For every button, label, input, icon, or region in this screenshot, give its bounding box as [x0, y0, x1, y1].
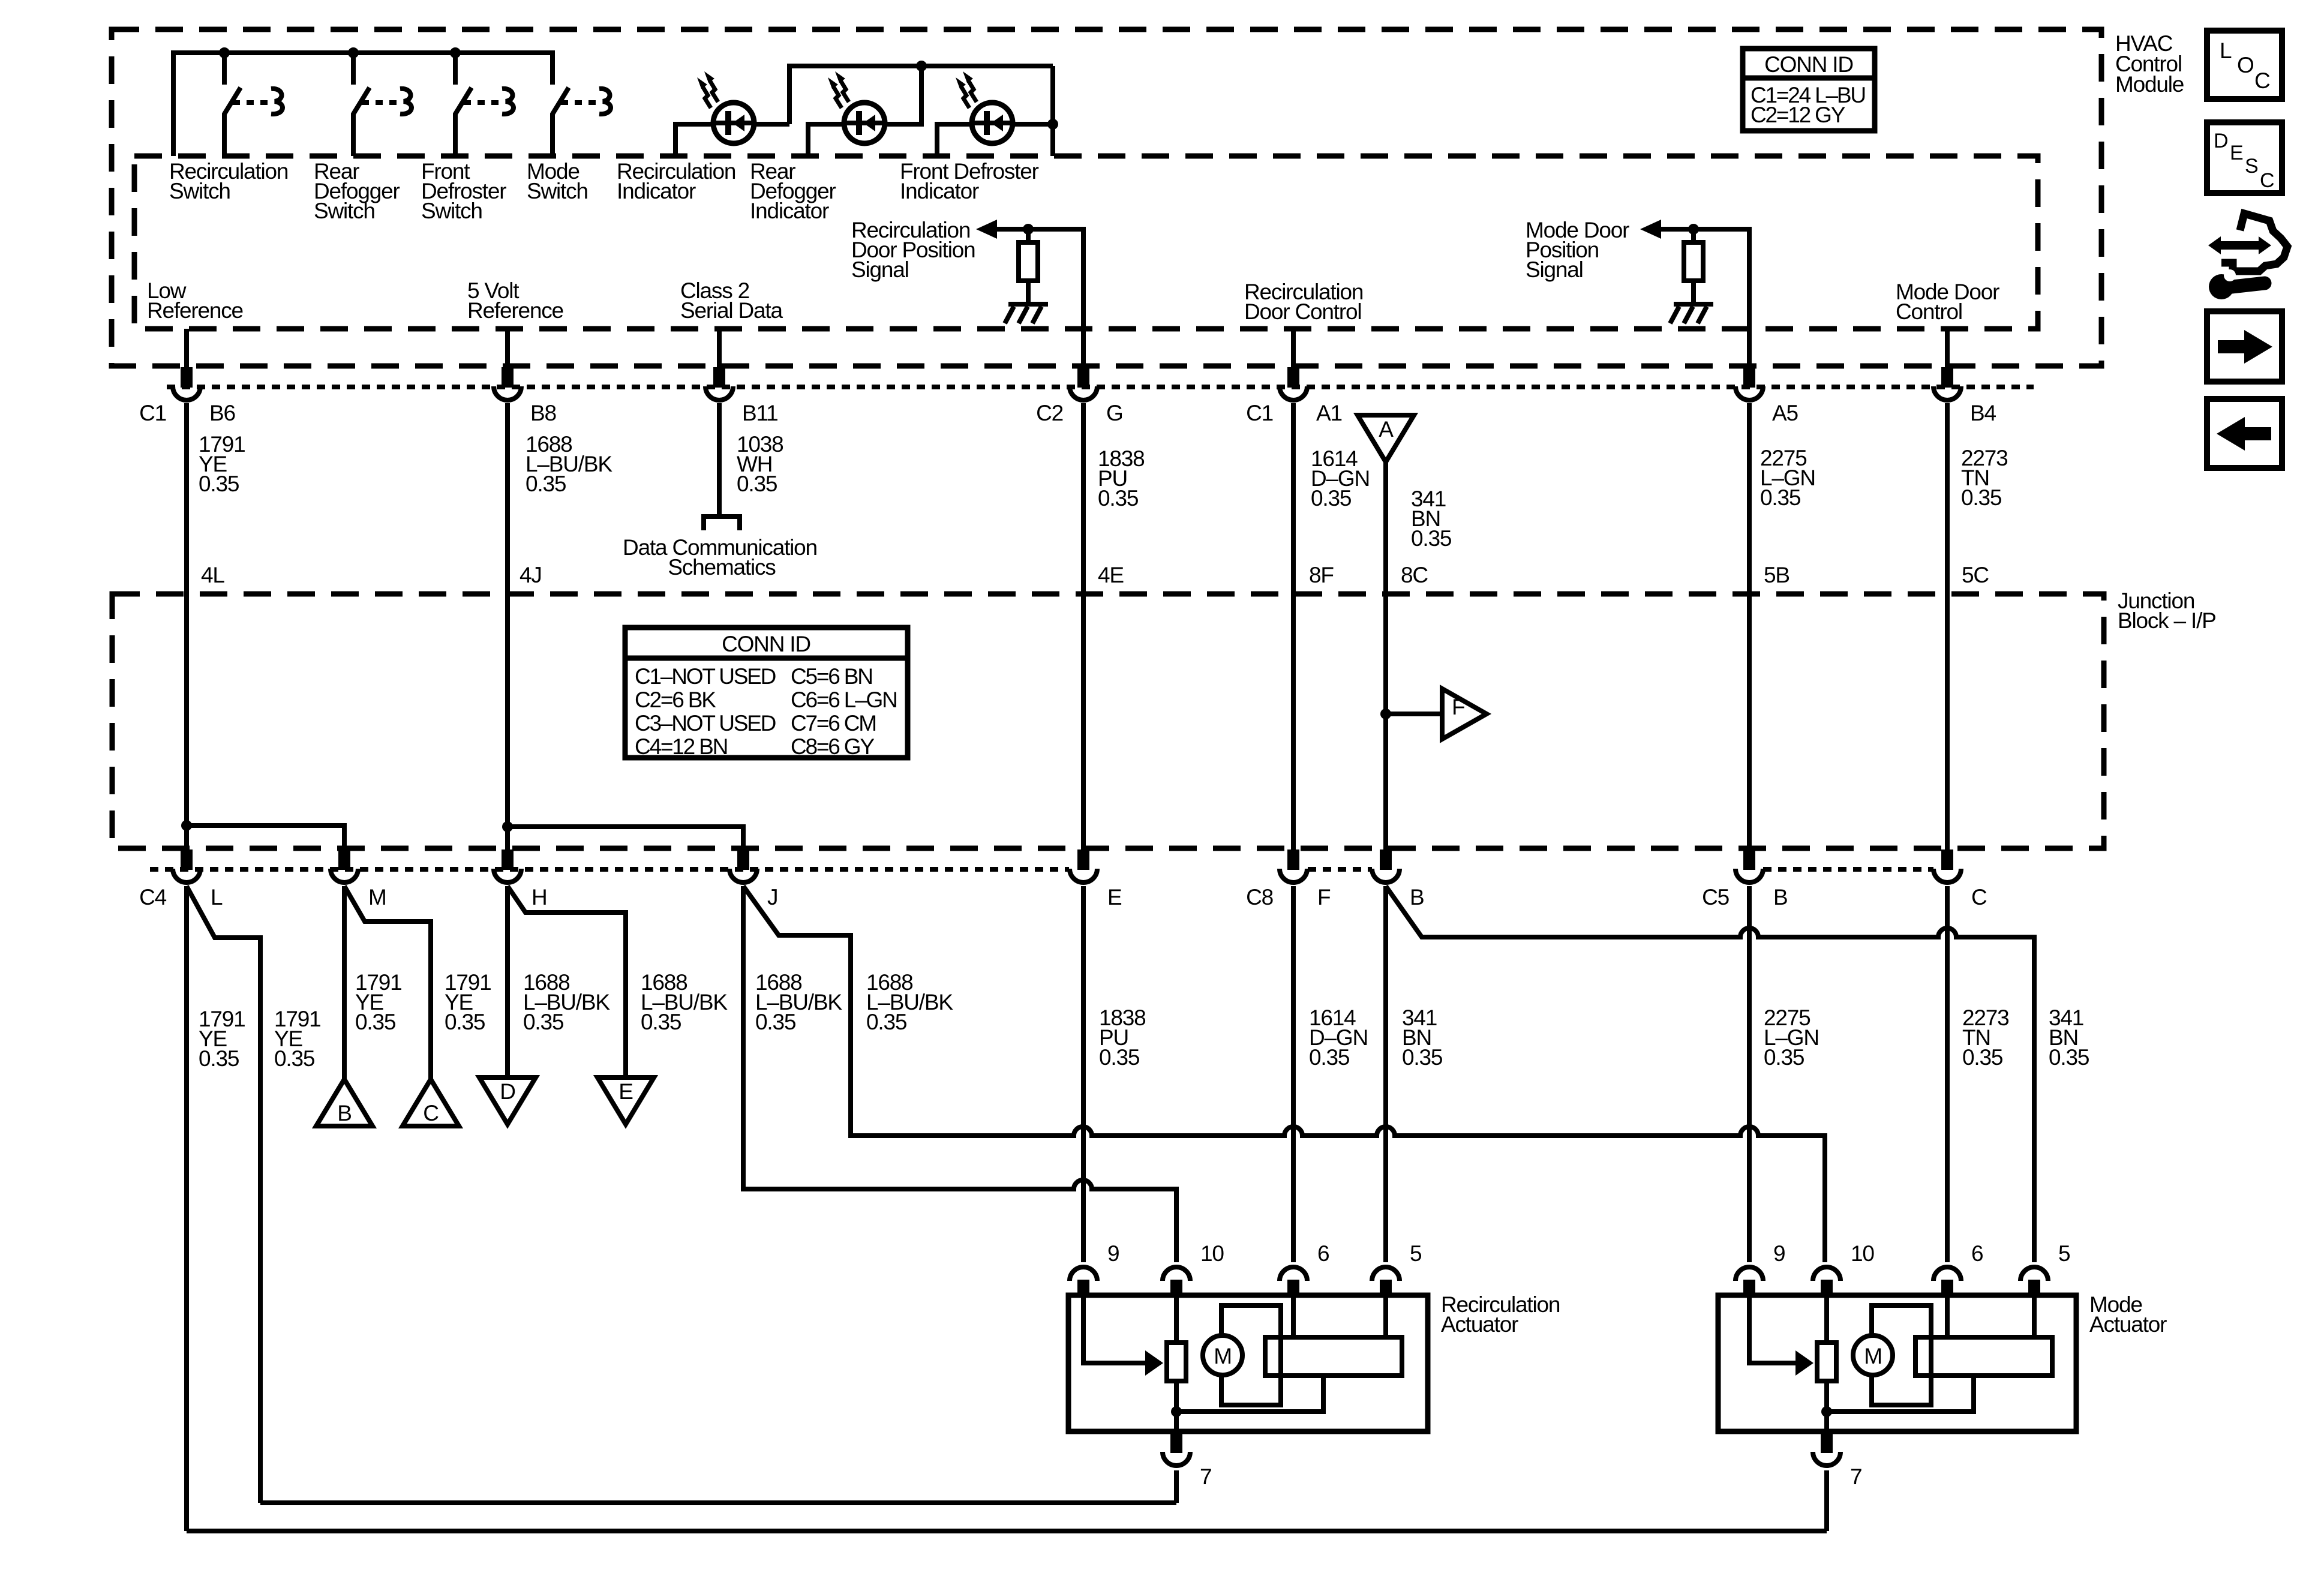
svg-text:0.35: 0.35	[1962, 1045, 2003, 1070]
wire to in-line connector F	[1386, 712, 1442, 716]
svg-text:D: D	[500, 1079, 515, 1104]
svg-text:Block – I/P: Block – I/P	[2118, 608, 2216, 633]
CONN ID table (HVAC module)	[1743, 49, 1875, 131]
svg-text:Schematics: Schematics	[668, 555, 776, 580]
svg-text:A: A	[1379, 417, 1394, 442]
svg-text:4J: 4J	[520, 563, 542, 587]
svg-text:6: 6	[1317, 1241, 1329, 1266]
svg-text:Switch: Switch	[527, 179, 588, 203]
svg-text:0.35: 0.35	[2049, 1045, 2089, 1070]
wire 1838 PU (G to junction 4E)	[1081, 403, 1086, 851]
Recirculation Indicator LED D1	[697, 71, 754, 143]
pin 9 connector	[1736, 1267, 1763, 1281]
wire class 2 serial data	[717, 329, 722, 367]
pin 6 connector	[1280, 1267, 1307, 1281]
svg-text:0.35: 0.35	[445, 1010, 485, 1034]
wire B branch to mode actuator pin 5	[1386, 886, 2034, 1262]
motor M	[1853, 1335, 1893, 1375]
svg-text:C5: C5	[1702, 885, 1730, 909]
svg-text:0.35: 0.35	[199, 1046, 239, 1071]
Mode Actuator box	[1718, 1295, 2076, 1431]
svg-text:5B: 5B	[1764, 563, 1789, 587]
Front Defroster Indicator LED D3	[956, 71, 1013, 143]
in-line connector F	[1442, 689, 1487, 739]
wire 1791 YE (B6 to junction 4L)	[184, 403, 189, 851]
LED anode bus wire	[675, 124, 789, 156]
Front Defroster Switch	[455, 53, 514, 156]
svg-text:A5: A5	[1772, 401, 1798, 425]
junction connector C4 face (dotted)	[150, 867, 1069, 872]
svg-text:O: O	[2237, 53, 2254, 77]
svg-text:D: D	[2214, 130, 2227, 152]
junction connector C5 face (dotted)	[1763, 867, 1933, 872]
svg-text:0.35: 0.35	[641, 1010, 681, 1034]
mode pullup resistor	[1691, 229, 1696, 242]
svg-text:C8: C8	[1246, 885, 1273, 909]
connector D (triangle)	[479, 1077, 536, 1124]
switch blade	[224, 88, 241, 156]
switch detent link (dashed)	[561, 100, 597, 105]
pin 6 connector	[1933, 1267, 1961, 1281]
svg-text:C1: C1	[1246, 401, 1273, 425]
svg-text:7: 7	[1200, 1464, 1211, 1489]
switch blade	[553, 88, 569, 156]
svg-text:Reference: Reference	[147, 298, 243, 323]
recirc position signal wire	[993, 229, 1083, 367]
svg-text:0.35: 0.35	[737, 472, 777, 496]
connector B (triangle)	[316, 1079, 373, 1126]
wire low reference	[184, 329, 189, 367]
wire 5 volt reference	[505, 329, 510, 367]
recirc position signal arrow	[976, 220, 997, 239]
recirc pullup resistor	[1026, 229, 1031, 242]
wire mode door control	[1945, 329, 1950, 367]
svg-text:Door Control: Door Control	[1244, 299, 1361, 324]
bus junction node x=589	[348, 47, 359, 58]
svg-text:C7=6 CM: C7=6 CM	[791, 711, 876, 736]
svg-text:H: H	[532, 885, 547, 909]
CONN ID table (junction block)	[625, 628, 908, 759]
svg-text:Indicator: Indicator	[750, 199, 829, 223]
svg-text:0.35: 0.35	[526, 472, 566, 496]
svg-text:C: C	[1971, 885, 1987, 909]
svg-text:C4: C4	[139, 885, 167, 909]
connector E (triangle)	[597, 1077, 654, 1124]
svg-text:Reference: Reference	[467, 298, 563, 323]
svg-text:F: F	[1452, 695, 1465, 719]
HVAC module inner circuitry dashed box	[134, 156, 2038, 329]
mode position signal arrow	[1640, 220, 1661, 239]
junction internal wire to cavity M	[187, 825, 344, 851]
DESC icon	[2207, 122, 2282, 193]
mode pot junction	[1688, 224, 1699, 235]
pin 7 connector	[1170, 1433, 1182, 1453]
Rear Defogger Indicator LED D2	[828, 71, 885, 143]
switch supply bus wire	[173, 53, 553, 156]
svg-text:0.35: 0.35	[1309, 1045, 1350, 1070]
switch detent link (dashed)	[362, 100, 398, 105]
wire M to connector B	[342, 886, 347, 1079]
junction node to connector F	[1380, 709, 1391, 719]
svg-text:B8: B8	[530, 401, 556, 425]
svg-text:CONN ID: CONN ID	[722, 632, 810, 656]
junction pin E x=1806	[1070, 849, 1122, 909]
wire M branch to connector C	[344, 886, 431, 1079]
svg-text:C6=6 L–GN: C6=6 L–GN	[791, 688, 897, 712]
svg-text:Serial Data: Serial Data	[680, 298, 783, 323]
connector C (triangle)	[403, 1079, 459, 1126]
svg-text:0.35: 0.35	[866, 1010, 907, 1034]
svg-text:C2=12 GY: C2=12 GY	[1750, 103, 1845, 127]
switch contact stub x=759	[453, 53, 458, 85]
svg-text:0.35: 0.35	[1311, 486, 1352, 511]
connector pin B11	[705, 367, 778, 425]
svg-text:0.35: 0.35	[1099, 1045, 1140, 1070]
svg-text:F: F	[1317, 885, 1331, 909]
svg-text:C: C	[2260, 169, 2274, 192]
control wires into strip	[1947, 1295, 2034, 1337]
service tool icon	[2208, 214, 2287, 299]
svg-text:C: C	[2254, 68, 2270, 93]
svg-text:5: 5	[2058, 1241, 2070, 1266]
svg-text:8C: 8C	[1401, 563, 1428, 587]
control wires into strip	[1293, 1295, 1386, 1337]
svg-text:0.35: 0.35	[274, 1046, 315, 1071]
wire C to mode actuator pin 6	[1945, 886, 1950, 1262]
bus junction node x=374	[219, 47, 230, 58]
svg-text:4L: 4L	[201, 563, 224, 587]
Junction Block - I/P dashed box	[112, 594, 2104, 848]
svg-text:0.35: 0.35	[1961, 485, 2002, 510]
svg-text:C: C	[423, 1101, 439, 1125]
svg-text:CONN ID: CONN ID	[1764, 52, 1853, 77]
Mode Actuator	[1718, 1241, 2167, 1531]
ground (mode pot)	[1670, 281, 1713, 323]
svg-text:10: 10	[1200, 1241, 1224, 1266]
svg-text:E: E	[2230, 142, 2243, 164]
Recirculation Actuator box	[1068, 1295, 1428, 1431]
svg-text:B: B	[337, 1101, 351, 1125]
svg-text:A1: A1	[1316, 401, 1342, 425]
svg-text:8F: 8F	[1309, 563, 1334, 587]
potentiometer strip	[1915, 1337, 2052, 1376]
svg-text:G: G	[1106, 401, 1123, 425]
wire E to recirc actuator pin 9	[1081, 886, 1086, 1262]
svg-text:0.35: 0.35	[1411, 526, 1452, 551]
svg-text:B6: B6	[209, 401, 235, 425]
back arrow icon	[2207, 399, 2282, 468]
junction connector C8 face (dotted)	[1308, 867, 1372, 872]
switch blade	[455, 88, 472, 156]
switch detent contact	[271, 89, 283, 114]
pin 7 connector	[1821, 1433, 1833, 1453]
wire 2275 L-GN (A5 to junction 5B)	[1747, 403, 1752, 851]
wire 341 BN (A to junction 8C)	[1383, 462, 1388, 851]
connector pin B8	[494, 367, 556, 425]
svg-text:7: 7	[1850, 1464, 1861, 1489]
wire C5-B to mode actuator pin 9	[1747, 886, 1752, 1262]
svg-text:C2: C2	[1036, 401, 1063, 425]
wire 1614 D-GN (A1 to junction 8F)	[1291, 403, 1296, 851]
junction pin M x=574	[331, 849, 386, 909]
ground (recirc pot)	[1005, 281, 1048, 323]
svg-text:M: M	[1214, 1344, 1232, 1368]
wire L branch to recirc rail	[187, 886, 260, 1503]
svg-text:M: M	[1864, 1344, 1882, 1368]
recirc pot junction	[1023, 224, 1034, 235]
svg-text:9: 9	[1773, 1241, 1785, 1266]
svg-text:Indicator: Indicator	[617, 179, 696, 203]
svg-text:0.35: 0.35	[355, 1010, 396, 1034]
svg-text:Signal: Signal	[1526, 257, 1583, 282]
wiper junction	[1171, 1406, 1182, 1417]
junction node on low reference	[181, 820, 192, 831]
switch detent contact	[599, 89, 611, 114]
LED3 anode junction	[1047, 119, 1058, 130]
svg-text:Switch: Switch	[421, 199, 482, 223]
svg-text:L: L	[2220, 38, 2232, 63]
mode actuator ground rail	[187, 1529, 1827, 1533]
Rear Defogger Switch	[353, 53, 412, 156]
junction internal wire to cavity J	[508, 827, 743, 851]
Recirculation Switch	[224, 53, 283, 156]
svg-text:B: B	[1773, 885, 1787, 909]
connector pin B4	[1933, 367, 1996, 425]
switch contact stub x=374	[222, 53, 227, 85]
svg-text:0.35: 0.35	[1098, 486, 1139, 511]
internal wiper-supply arrow	[1083, 1295, 1146, 1363]
bus junction node x=759	[450, 47, 461, 58]
position-feedback resistor	[1167, 1343, 1186, 1381]
svg-text:B: B	[1410, 885, 1424, 909]
svg-text:B4: B4	[1970, 401, 1996, 425]
in-line connector A	[1358, 415, 1414, 462]
junction pin C x=3246	[1933, 849, 1987, 909]
svg-text:J: J	[767, 885, 777, 909]
svg-text:0.35: 0.35	[199, 472, 239, 496]
svg-text:5C: 5C	[1962, 563, 1989, 587]
switch detent contact	[400, 89, 412, 114]
svg-text:5: 5	[1410, 1241, 1422, 1266]
svg-text:10: 10	[1851, 1241, 1874, 1266]
connector pin G	[1036, 367, 1123, 425]
svg-text:0.35: 0.35	[1764, 1045, 1804, 1070]
svg-text:Switch: Switch	[314, 199, 375, 223]
wire J to recirc actuator pin 10	[743, 886, 1176, 1262]
pin 7 wire	[1174, 1470, 1179, 1503]
wire 2273 TN (B4 to junction 5C)	[1945, 403, 1950, 851]
switch detent link (dashed)	[233, 100, 269, 105]
wire H to connector D	[505, 886, 510, 1077]
HVAC Control Module outer dashed box	[112, 29, 2101, 366]
connector pin B6	[139, 367, 235, 425]
wire H branch to connector E	[508, 886, 626, 1077]
wiper arm wire	[1827, 1376, 1974, 1412]
svg-text:E: E	[1107, 885, 1122, 909]
svg-text:0.35: 0.35	[1402, 1045, 1443, 1070]
LED bus junction	[916, 61, 927, 71]
svg-text:Actuator: Actuator	[1441, 1312, 1518, 1337]
svg-text:E: E	[618, 1079, 633, 1104]
svg-text:C1–NOT USED: C1–NOT USED	[635, 664, 776, 689]
switch contact stub x=921	[550, 53, 555, 85]
mode position signal wire	[1657, 229, 1749, 367]
switch contact stub x=589	[351, 53, 356, 85]
Recirculation Actuator	[1068, 1241, 1560, 1503]
wire recirculation door control	[1291, 329, 1296, 367]
junction pin H x=846	[494, 849, 547, 909]
svg-text:Control: Control	[1896, 299, 1962, 324]
svg-text:6: 6	[1971, 1241, 1983, 1266]
pin 7 wire	[1824, 1470, 1829, 1531]
junction pin B x=2916	[1702, 849, 1787, 909]
wire J branch to mode actuator pin 10	[743, 886, 1825, 1262]
svg-text:C4=12 BN: C4=12 BN	[635, 734, 727, 759]
wire L to ground rail	[184, 886, 189, 1531]
svg-text:Switch: Switch	[169, 179, 230, 203]
LOC icon	[2207, 31, 2282, 99]
svg-text:4E: 4E	[1098, 563, 1124, 587]
junction pin F x=2156	[1246, 849, 1331, 909]
motor M	[1203, 1335, 1242, 1375]
motor bracket	[1872, 1305, 1931, 1405]
wire B to recirc actuator pin 5	[1383, 886, 1388, 1262]
junction pin J x=1239	[729, 849, 777, 909]
wiper arm wire	[1176, 1376, 1323, 1412]
connector pin A5	[1736, 367, 1798, 425]
svg-text:Actuator: Actuator	[2089, 1312, 2167, 1337]
wire 1688 L-BU/BK (B8 to junction 4J)	[505, 403, 510, 851]
svg-text:Indicator: Indicator	[900, 179, 979, 203]
module connector face (dotted)	[167, 385, 2034, 389]
off-page connector (data link)	[704, 517, 740, 530]
svg-text:0.35: 0.35	[1760, 485, 1801, 510]
svg-text:C8=6 GY: C8=6 GY	[791, 734, 874, 759]
svg-text:C2=6 BK: C2=6 BK	[635, 688, 716, 712]
forward arrow icon	[2207, 311, 2282, 382]
svg-text:0.35: 0.35	[755, 1010, 796, 1034]
recirc actuator ground rail	[260, 1500, 1176, 1505]
svg-text:B11: B11	[742, 401, 778, 425]
pin 10 connector	[1163, 1267, 1190, 1281]
svg-text:9: 9	[1107, 1241, 1119, 1266]
Mode Switch	[553, 53, 611, 156]
junction pin B x=2310	[1372, 849, 1424, 909]
wire to data communication schematics	[717, 403, 722, 514]
svg-text:C5=6 BN: C5=6 BN	[791, 664, 872, 689]
pin 9 connector	[1070, 1267, 1097, 1281]
switch detent contact	[502, 89, 514, 114]
wiper junction	[1821, 1406, 1832, 1417]
internal wiper-supply arrow	[1749, 1295, 1797, 1363]
switch blade	[353, 88, 370, 156]
svg-text:C3–NOT USED: C3–NOT USED	[635, 711, 776, 736]
potentiometer strip	[1265, 1337, 1402, 1376]
wire F to recirc actuator pin 6	[1291, 886, 1296, 1262]
svg-text:M: M	[368, 885, 386, 909]
junction node on 5V reference	[502, 821, 513, 832]
pin 5 connector	[1372, 1267, 1400, 1281]
pin 5 connector	[2020, 1267, 2048, 1281]
svg-text:Module: Module	[2115, 72, 2184, 97]
junction pin L x=311	[139, 849, 223, 909]
svg-text:L: L	[211, 885, 223, 909]
svg-text:S: S	[2245, 155, 2258, 178]
position-feedback resistor	[1817, 1343, 1836, 1381]
svg-text:0.35: 0.35	[523, 1010, 564, 1034]
svg-text:C1: C1	[139, 401, 166, 425]
svg-text:Signal: Signal	[851, 257, 909, 282]
switch detent link (dashed)	[464, 100, 500, 105]
motor bracket	[1221, 1305, 1281, 1405]
pin 10 connector	[1813, 1267, 1840, 1281]
connector pin A1	[1246, 367, 1342, 425]
